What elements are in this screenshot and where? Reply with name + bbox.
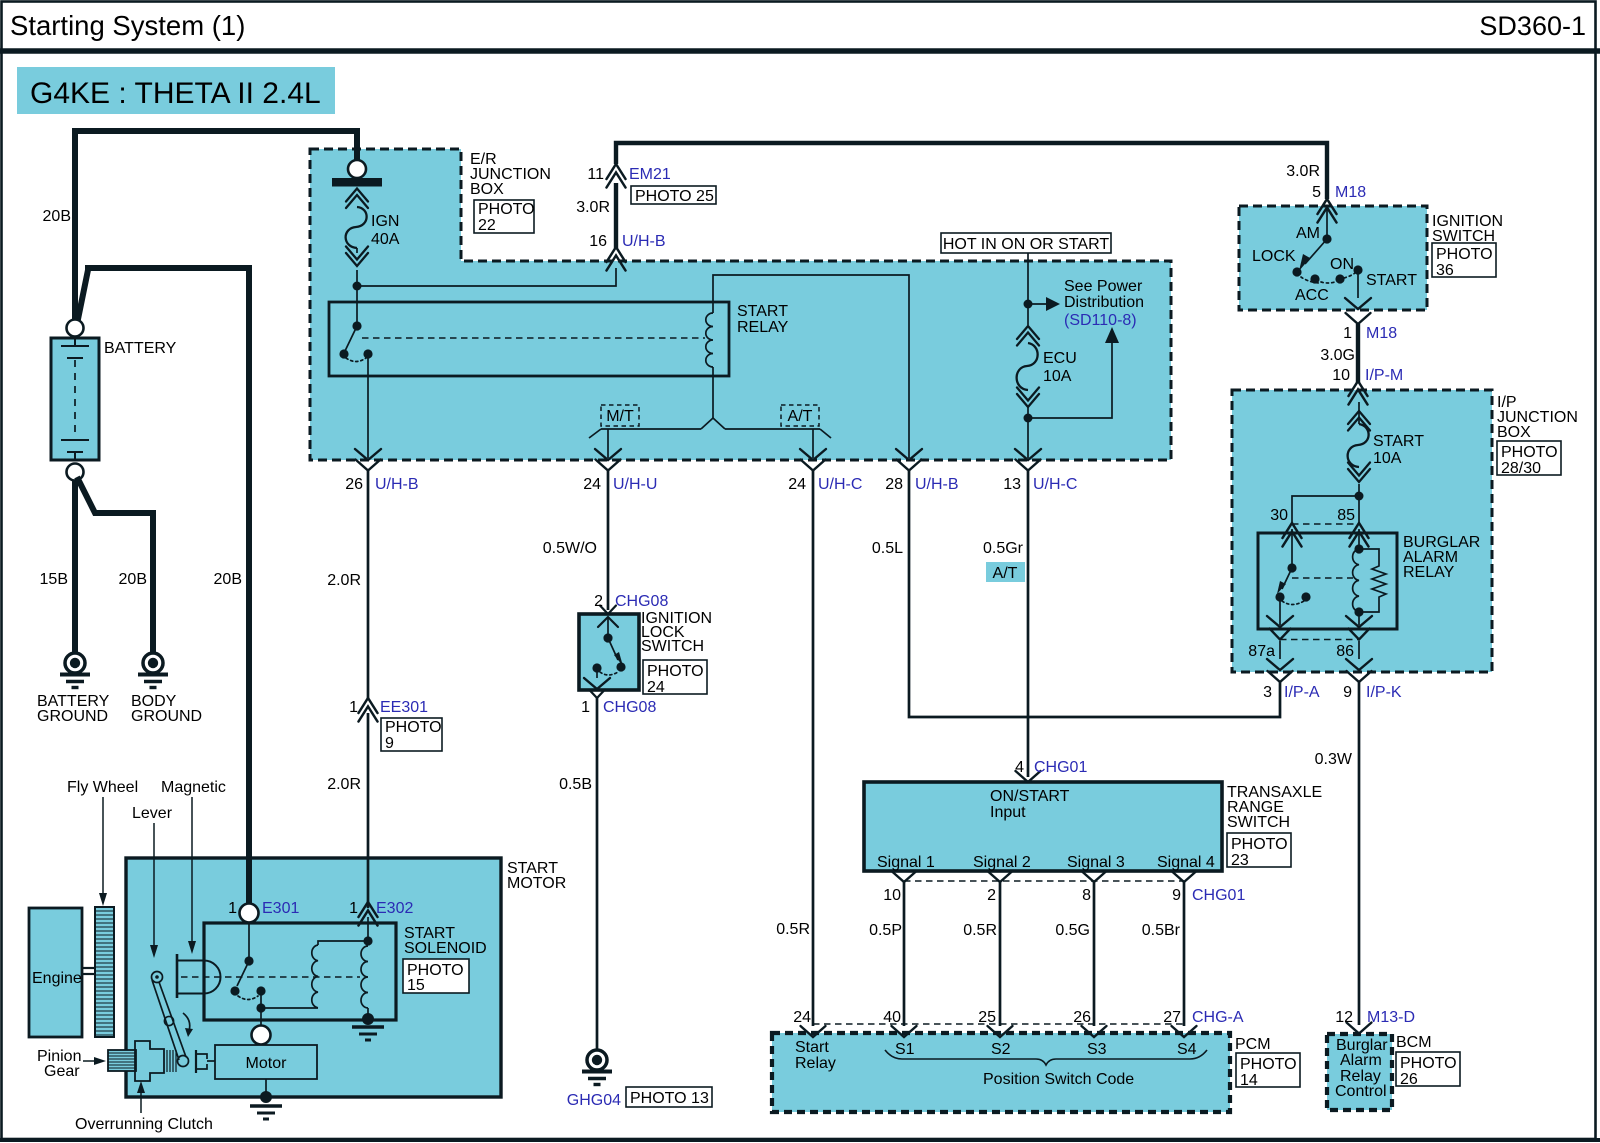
svg-text:U/H-B: U/H-B	[375, 476, 419, 493]
battery bottom terminal	[67, 464, 84, 481]
svg-text:10: 10	[883, 887, 901, 904]
fusible link IGN 40A terminal circle	[348, 160, 366, 178]
wire 15B to battery ground	[72, 481, 78, 652]
svg-text:12: 12	[1335, 1009, 1353, 1026]
svg-text:U/H-B: U/H-B	[622, 233, 666, 250]
photo 26 box	[1396, 1052, 1460, 1086]
svg-text:3: 3	[1263, 684, 1272, 701]
svg-text:11: 11	[587, 166, 604, 183]
svg-text:GHG04: GHG04	[567, 1092, 621, 1109]
feedback wire to SD110-8 arrow	[1028, 343, 1112, 418]
svg-text:3.0G: 3.0G	[1320, 347, 1355, 364]
pin 85 connector	[1350, 523, 1369, 547]
svg-text:SWITCH: SWITCH	[641, 638, 704, 655]
svg-text:S1: S1	[895, 1041, 915, 1058]
svg-text:ECU: ECU	[1043, 350, 1077, 367]
A/T branch slash	[820, 429, 831, 438]
svg-text:GROUND: GROUND	[37, 708, 108, 725]
svg-text:START: START	[1366, 272, 1417, 289]
wire 0.3W I/P-K to BCM	[1358, 682, 1361, 1025]
relay pin row dashed (30/85)	[1292, 523, 1359, 525]
svg-text:Signal 1: Signal 1	[877, 854, 935, 871]
svg-text:0.5Gr: 0.5Gr	[983, 540, 1024, 557]
wire 86 out	[1358, 612, 1360, 625]
photo 22 box	[474, 200, 534, 233]
TRS output connectors (CHG01)	[892, 871, 917, 882]
svg-text:BOX: BOX	[470, 181, 504, 198]
arrow into E/R bottom at 26	[355, 449, 381, 460]
svg-text:24: 24	[788, 476, 806, 493]
svg-text:1: 1	[581, 699, 590, 716]
svg-text:30: 30	[1270, 507, 1288, 524]
svg-text:1: 1	[1343, 325, 1352, 342]
svg-text:PHOTO 13: PHOTO 13	[630, 1090, 709, 1107]
connector 11 EM21	[607, 164, 626, 188]
fusible link bar	[332, 178, 382, 187]
svg-text:9: 9	[1343, 684, 1352, 701]
svg-text:I/P-K: I/P-K	[1366, 684, 1402, 701]
svg-text:CHG01: CHG01	[1192, 887, 1245, 904]
transaxle range switch box	[864, 782, 1222, 871]
wire 0.5L I/P-A to U/H-B 28	[909, 470, 1280, 717]
svg-text:2.0R: 2.0R	[327, 776, 361, 793]
svg-text:Signal 3: Signal 3	[1067, 854, 1125, 871]
ground GHG04	[582, 1050, 612, 1085]
arrow into E/R bottom at 28	[896, 449, 922, 460]
svg-text:24: 24	[793, 1009, 811, 1026]
svg-text:Alarm: Alarm	[1340, 1052, 1382, 1069]
svg-text:PHOTO: PHOTO	[478, 201, 535, 218]
svg-text:PHOTO: PHOTO	[1436, 246, 1493, 263]
burglar relay contact (30 to 87a)	[1291, 529, 1293, 568]
connector 26 U/H-B	[356, 460, 381, 471]
pin 87a connector	[1270, 629, 1291, 640]
svg-text:M13-D: M13-D	[1367, 1009, 1415, 1026]
svg-text:PHOTO: PHOTO	[647, 663, 704, 680]
motor box	[215, 1045, 317, 1079]
wire 2.0R relay 26 to EE301	[367, 470, 370, 700]
photo 9 box	[381, 718, 442, 751]
svg-text:See Power: See Power	[1064, 278, 1143, 295]
pin 86 connector	[1349, 629, 1370, 640]
svg-text:16: 16	[589, 233, 607, 250]
connector 12 M13-D	[1347, 1023, 1372, 1034]
E/R junction box (cyan dashed outline with notch)	[310, 149, 1171, 460]
connector 4 CHG01	[1016, 771, 1041, 782]
svg-text:S2: S2	[991, 1041, 1011, 1058]
battery ground symbol	[60, 653, 90, 688]
svg-text:MOTOR: MOTOR	[507, 875, 566, 892]
svg-text:26: 26	[345, 476, 363, 493]
svg-text:ON/START: ON/START	[990, 788, 1070, 805]
ignition switch wiper arm	[1305, 239, 1327, 264]
svg-text:M18: M18	[1366, 325, 1397, 342]
svg-text:Relay: Relay	[795, 1055, 836, 1072]
A/T tag box	[781, 405, 819, 426]
engine to flywheel shaft	[82, 967, 95, 969]
svg-text:4: 4	[1015, 759, 1024, 776]
svg-text:0.5Br: 0.5Br	[1142, 922, 1181, 939]
svg-text:0.5R: 0.5R	[963, 922, 997, 939]
connector 9 I/P-K	[1347, 671, 1372, 682]
svg-text:A/T: A/T	[788, 408, 813, 425]
svg-text:M18: M18	[1335, 184, 1366, 201]
svg-text:BCM: BCM	[1396, 1034, 1432, 1051]
engine label box G4KE	[17, 67, 335, 114]
svg-text:SD360-1: SD360-1	[1479, 11, 1586, 41]
svg-text:0.3W: 0.3W	[1315, 751, 1353, 768]
svg-text:40A: 40A	[371, 231, 400, 248]
terminal 1 E301	[240, 904, 259, 923]
branch wire to relay pin 30	[1292, 496, 1359, 524]
motor terminal circle	[252, 1026, 271, 1045]
wire node to connector 16	[357, 268, 616, 286]
wire 20B to body ground	[77, 477, 153, 652]
solenoid output node	[260, 991, 262, 1008]
connector 3 I/P-A	[1268, 671, 1293, 682]
wire 2.0R EE301 to E302	[367, 713, 370, 908]
svg-text:PHOTO 25: PHOTO 25	[635, 188, 714, 205]
wire 20B battery to start motor E301	[77, 268, 249, 904]
svg-text:RELAY: RELAY	[737, 319, 789, 336]
solenoid contact from E301	[248, 923, 250, 961]
svg-text:PCM: PCM	[1235, 1036, 1271, 1053]
A/T highlight tag	[986, 562, 1025, 582]
svg-text:I/P-M: I/P-M	[1365, 367, 1403, 384]
svg-text:PHOTO: PHOTO	[1501, 444, 1558, 461]
svg-text:24: 24	[583, 476, 601, 493]
wire 0.5R start relay to PCM	[812, 470, 815, 1026]
arrow into E/R bottom at 13	[1015, 449, 1041, 460]
fuse IGN 40A	[346, 189, 368, 209]
svg-text:1: 1	[349, 900, 358, 917]
svg-text:CHG08: CHG08	[615, 593, 668, 610]
svg-text:Signal 2: Signal 2	[973, 854, 1031, 871]
I/P junction box	[1232, 390, 1492, 672]
node above ECU fuse	[1024, 300, 1033, 309]
svg-text:0.5P: 0.5P	[869, 922, 902, 939]
svg-text:EE301: EE301	[380, 699, 428, 716]
svg-text:5: 5	[1312, 184, 1321, 201]
svg-text:S3: S3	[1087, 1041, 1107, 1058]
svg-text:M/T: M/T	[606, 408, 634, 425]
position switch code brace	[885, 1050, 1207, 1065]
solenoid pull-in coil	[318, 941, 368, 945]
svg-text:START: START	[1373, 433, 1424, 450]
PCM pin row dashed	[813, 1023, 1184, 1025]
svg-text:Engine: Engine	[32, 970, 82, 987]
lever motion arrow	[183, 1013, 190, 1031]
photo 25 box	[631, 186, 716, 204]
photo 28/30 box	[1497, 441, 1561, 475]
svg-text:CHG-A: CHG-A	[1192, 1009, 1244, 1026]
fuse ECU 10A	[1027, 304, 1029, 325]
PCM connectors	[801, 1026, 826, 1037]
svg-text:10: 10	[1332, 367, 1350, 384]
svg-text:0.5R: 0.5R	[776, 921, 810, 938]
svg-text:SWITCH: SWITCH	[1227, 814, 1290, 831]
svg-text:3.0R: 3.0R	[576, 199, 610, 216]
svg-text:IGN: IGN	[371, 213, 399, 230]
photo 36 box	[1432, 243, 1496, 277]
connector 1 M18	[1346, 313, 1371, 324]
svg-text:PHOTO: PHOTO	[1231, 836, 1288, 853]
connector 24 U/H-C	[801, 460, 826, 471]
connector 1 E302	[359, 902, 378, 926]
svg-text:9: 9	[385, 735, 394, 752]
svg-text:13: 13	[1003, 476, 1021, 493]
svg-text:20B: 20B	[214, 571, 242, 588]
svg-text:A/T: A/T	[993, 565, 1018, 582]
svg-text:G4KE : THETA II 2.4L: G4KE : THETA II 2.4L	[30, 77, 321, 110]
engine box	[29, 908, 82, 1037]
svg-text:0.5L: 0.5L	[872, 540, 903, 557]
svg-text:10A: 10A	[1373, 450, 1402, 467]
svg-text:1: 1	[228, 900, 237, 917]
clutch fork guide	[195, 1050, 197, 1073]
BCM box	[1327, 1034, 1392, 1110]
link to coils	[261, 1007, 318, 1009]
svg-text:PHOTO: PHOTO	[1240, 1056, 1297, 1073]
svg-text:Magnetic: Magnetic	[161, 779, 226, 796]
solenoid ground	[362, 1013, 374, 1025]
wire relay coil top to connector 28	[713, 275, 909, 458]
connector 24 U/H-U	[596, 460, 621, 471]
wire 87a to I/P box edge	[1279, 641, 1281, 659]
svg-text:AM: AM	[1296, 225, 1320, 242]
svg-text:(SD110-8): (SD110-8)	[1064, 312, 1137, 329]
svg-text:SOLENOID: SOLENOID	[404, 940, 487, 957]
svg-text:Starting System (1): Starting System (1)	[10, 10, 245, 41]
wire relay contact out to connector 26	[367, 354, 369, 458]
connector 16 U/H-B	[607, 247, 626, 271]
svg-text:26: 26	[1400, 1071, 1418, 1088]
lever arm	[152, 972, 163, 983]
see power distribution arrow	[1028, 303, 1046, 305]
wire 20B battery to E/R junction box	[75, 131, 357, 320]
ignition switch internals	[1326, 208, 1328, 239]
relay pin row dashed (87a/86)	[1280, 639, 1359, 641]
ignition lock switch internals	[598, 617, 618, 627]
svg-text:28: 28	[885, 476, 903, 493]
fuse START 10A	[1358, 402, 1360, 424]
svg-text:15: 15	[407, 977, 425, 994]
wire 3.0R below EM21	[614, 183, 618, 248]
burglar alarm relay box	[1258, 533, 1397, 629]
node at IGN fuse output	[353, 282, 362, 291]
svg-text:22: 22	[478, 217, 496, 234]
wire 0.5W/O U/H-U 24 to ignition lock switch	[607, 470, 610, 610]
wire 87a out	[1279, 597, 1281, 625]
svg-text:2: 2	[987, 887, 996, 904]
svg-text:E301: E301	[262, 900, 299, 917]
solenoid plunger	[176, 954, 179, 998]
svg-text:24: 24	[647, 679, 665, 696]
wire fuse to node	[1358, 484, 1360, 524]
svg-text:0.5W/O: 0.5W/O	[543, 540, 597, 557]
svg-text:Signal 4: Signal 4	[1157, 854, 1215, 871]
svg-text:PHOTO: PHOTO	[1400, 1055, 1457, 1072]
M/T branch slash	[589, 429, 601, 438]
svg-text:14: 14	[1240, 1072, 1258, 1089]
svg-text:Distribution: Distribution	[1064, 294, 1144, 311]
svg-text:86: 86	[1336, 643, 1354, 660]
battery box	[51, 338, 99, 460]
node below START fuse	[1355, 492, 1364, 501]
svg-text:U/H-B: U/H-B	[915, 476, 959, 493]
connector 13 U/H-C	[1016, 460, 1041, 471]
relay armature dashed link	[362, 337, 705, 339]
svg-text:85: 85	[1337, 507, 1355, 524]
svg-text:2: 2	[594, 593, 603, 610]
svg-text:ON: ON	[1330, 256, 1354, 273]
start relay coil	[706, 313, 713, 367]
wire relay coil bottom to M/T A/T fork	[712, 367, 714, 418]
svg-text:Start: Start	[795, 1039, 829, 1056]
svg-text:RELAY: RELAY	[1403, 564, 1455, 581]
start motor box	[126, 858, 501, 1097]
svg-text:EM21: EM21	[629, 166, 671, 183]
svg-text:15B: 15B	[40, 571, 68, 588]
start relay contact	[356, 288, 358, 326]
connector 1 EE301	[359, 698, 378, 722]
svg-text:BOX: BOX	[1497, 424, 1531, 441]
pin 30 connector	[1283, 523, 1302, 547]
photo 15 box	[403, 959, 469, 993]
M/T tag box	[601, 405, 639, 426]
svg-text:U/H-U: U/H-U	[613, 476, 657, 493]
body ground symbol	[138, 653, 168, 688]
ignition switch START output wire	[1357, 270, 1359, 298]
svg-text:20B: 20B	[43, 208, 71, 225]
wire 0.5Gr U/H-C 13 to CHG01 4	[1027, 470, 1030, 777]
svg-text:Lever: Lever	[132, 805, 173, 822]
svg-text:1: 1	[349, 699, 358, 716]
start solenoid box	[204, 923, 396, 1020]
photo 13 box	[626, 1087, 712, 1107]
fly wheel	[95, 907, 114, 1037]
svg-text:Fly Wheel: Fly Wheel	[67, 779, 138, 796]
svg-text:36: 36	[1436, 262, 1454, 279]
burglar relay resistor	[1359, 549, 1386, 612]
pinion gear	[108, 1050, 136, 1071]
wire 86 to I/P box edge	[1358, 641, 1360, 659]
connector 28 U/H-B	[897, 460, 922, 471]
svg-text:ACC: ACC	[1295, 287, 1329, 304]
PCM box	[772, 1033, 1230, 1112]
burglar relay coil (85 to 86)	[1358, 529, 1360, 549]
M/T A/T fork	[701, 418, 725, 429]
connector 2 CHG08	[600, 606, 616, 615]
ignition switch box	[1239, 206, 1427, 310]
title separator rule	[0, 48, 1600, 54]
svg-text:Gear: Gear	[44, 1063, 80, 1080]
svg-text:HOT IN ON OR START: HOT IN ON OR START	[943, 236, 1109, 253]
connector 1 CHG08	[589, 690, 605, 699]
wire 3.0G	[1356, 324, 1360, 383]
burglar relay contact dashed link	[1292, 577, 1353, 579]
photo 14 box	[1236, 1053, 1300, 1087]
wire into ECU fuse	[1027, 253, 1029, 304]
svg-text:Control: Control	[1335, 1083, 1387, 1100]
TRS pin row dashed	[904, 880, 1184, 882]
svg-text:10A: 10A	[1043, 368, 1072, 385]
svg-text:U/H-C: U/H-C	[818, 476, 862, 493]
svg-text:LOCK: LOCK	[1252, 248, 1296, 265]
wire ECU fuse output node	[1027, 407, 1029, 458]
svg-text:E302: E302	[376, 900, 413, 917]
svg-text:CHG08: CHG08	[603, 699, 656, 716]
svg-text:23: 23	[1231, 852, 1249, 869]
connector 5 M18	[1318, 199, 1337, 223]
wire fuse to junction node	[356, 270, 358, 287]
svg-text:CHG01: CHG01	[1034, 759, 1087, 776]
solenoid hold coil	[363, 936, 372, 945]
signal wires to PCM	[903, 882, 906, 1026]
svg-text:U/H-C: U/H-C	[1033, 476, 1077, 493]
svg-text:Input: Input	[990, 804, 1026, 821]
connector 10 I/P-M	[1349, 381, 1368, 405]
svg-text:Overrunning Clutch: Overrunning Clutch	[75, 1116, 213, 1133]
ignition lock switch box	[579, 614, 639, 690]
wire 3.0R EM21 to M18	[616, 143, 1327, 199]
svg-text:87a: 87a	[1248, 643, 1275, 660]
photo 24 box	[643, 660, 707, 694]
svg-text:S4: S4	[1177, 1041, 1197, 1058]
photo 23 box	[1227, 833, 1291, 867]
svg-text:GROUND: GROUND	[131, 708, 202, 725]
svg-text:20B: 20B	[119, 571, 147, 588]
svg-text:I/P-A: I/P-A	[1284, 684, 1320, 701]
svg-text:0.5G: 0.5G	[1055, 922, 1090, 939]
svg-text:0.5B: 0.5B	[559, 776, 592, 793]
svg-text:START: START	[737, 303, 788, 320]
svg-text:9: 9	[1172, 887, 1181, 904]
wire M/T branch down	[607, 429, 609, 458]
wire 0.5B to ground	[596, 698, 599, 1050]
motor ground	[265, 1079, 267, 1092]
solenoid plunger dashed axis	[181, 976, 360, 978]
svg-text:3.0R: 3.0R	[1286, 163, 1320, 180]
HOT IN ON OR START tag	[941, 233, 1111, 253]
svg-text:Position Switch Code: Position Switch Code	[983, 1071, 1134, 1088]
overrunning clutch body	[135, 1041, 164, 1081]
svg-text:2.0R: 2.0R	[327, 572, 361, 589]
battery top terminal	[67, 320, 84, 337]
svg-text:28/30: 28/30	[1501, 460, 1541, 477]
svg-text:BATTERY: BATTERY	[104, 340, 177, 357]
svg-text:Motor: Motor	[246, 1055, 288, 1072]
start relay box	[329, 302, 729, 376]
wire A/T branch down	[812, 429, 814, 458]
svg-text:PHOTO: PHOTO	[385, 719, 442, 736]
svg-text:8: 8	[1082, 887, 1091, 904]
